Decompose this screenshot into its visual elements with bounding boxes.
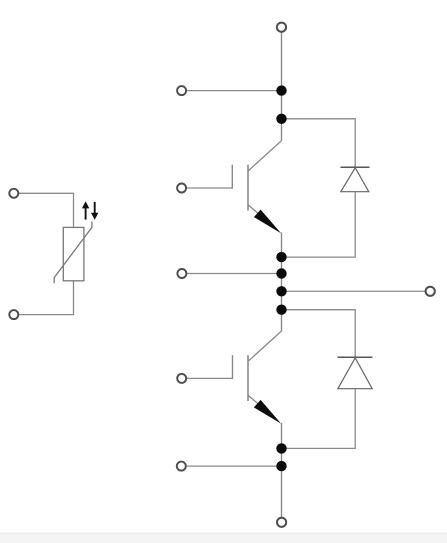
wire bottom trunk (emitter of Q2) bbox=[281, 423, 283, 518]
bottom strip top border bbox=[0, 533, 447, 534]
terminal AC output bbox=[426, 287, 435, 296]
wire NTC bottom lead bbox=[18, 281, 73, 315]
terminal gate Q1 bbox=[177, 184, 186, 193]
IGBT Q2 bbox=[186, 331, 281, 424]
diode D2 cathode bar bbox=[338, 356, 373, 358]
terminal NTC-1 (top left) bbox=[9, 189, 18, 198]
thermistor R1 body bbox=[63, 227, 84, 280]
terminal bottom (DC-) bbox=[277, 518, 286, 527]
terminal top (DC+) bbox=[277, 23, 286, 32]
terminal gate Q2 bbox=[177, 374, 186, 383]
Q2 gate lead bbox=[186, 377, 232, 379]
wire NTC top lead bbox=[18, 193, 73, 227]
Q2 emitter arrow bbox=[254, 400, 281, 424]
Q2 body bar bbox=[247, 355, 249, 401]
Q1 emitter line bbox=[248, 205, 264, 219]
wire emitter sense (bottom left) bbox=[186, 465, 282, 467]
node dot: AC output junction bbox=[276, 286, 286, 296]
wire middle trunk bbox=[281, 233, 283, 332]
node dot: collector sense junction bbox=[276, 85, 286, 95]
terminal emitter sense bottom bbox=[177, 462, 186, 471]
IGBT Q1 bbox=[186, 141, 281, 234]
wire top trunk (collector of Q1) bbox=[281, 32, 283, 141]
terminal collector sense bbox=[177, 86, 186, 95]
terminal emitter sense mid bbox=[177, 269, 186, 278]
node dot: D1 cathode junction bbox=[276, 114, 286, 124]
diode D1 cathode bar bbox=[341, 166, 370, 168]
node dot: emitter sense bottom junction bbox=[276, 461, 286, 471]
node dot: emitter sense mid junction bbox=[276, 268, 286, 278]
Q2 emitter line bbox=[248, 395, 264, 409]
node dot: D2 anode junction bbox=[276, 443, 286, 453]
arrow down (current direction) bbox=[91, 202, 98, 220]
arrow up (current direction) bbox=[82, 201, 89, 219]
wire diode D2 branch bbox=[282, 310, 356, 449]
wire diode D1 branch bbox=[282, 119, 356, 257]
Q1 emitter arrow bbox=[254, 210, 281, 234]
Q1 collector diagonal bbox=[248, 141, 281, 171]
terminal NTC-2 (bottom left) bbox=[9, 310, 18, 319]
bottom gray strip bbox=[0, 533, 447, 543]
wire emitter sense (left, mid) bbox=[186, 273, 281, 275]
thermistor R1 diagonal stroke bbox=[54, 221, 92, 283]
diode D1 triangle bbox=[341, 168, 369, 192]
wire collector sense (left) bbox=[186, 90, 281, 92]
Q1 body bar bbox=[247, 165, 249, 211]
node dot: D1 anode junction bbox=[276, 252, 286, 262]
wire AC output (right) bbox=[282, 290, 426, 292]
Q1 gate bar bbox=[231, 165, 233, 189]
Q1 gate lead bbox=[186, 187, 232, 189]
Q2 collector diagonal bbox=[248, 331, 281, 361]
Q2 gate bar bbox=[232, 355, 234, 379]
diode D2 triangle bbox=[338, 358, 372, 389]
node dot: D2 cathode junction bbox=[276, 305, 286, 315]
